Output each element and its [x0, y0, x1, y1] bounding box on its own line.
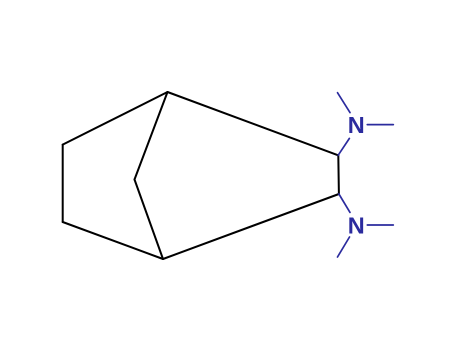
bond Bot-C2	[163, 194, 339, 259]
bond N2-methyl right	[367, 224, 393, 226]
bond N2-C2	[339, 194, 350, 212]
bond N1-methyl right	[367, 124, 393, 126]
bond M-Bot	[135, 180, 164, 260]
bond T-A	[63, 92, 168, 145]
bond T-C1	[168, 92, 339, 155]
bond N1-methyl top	[338, 93, 351, 113]
bond C1-C2	[337, 155, 340, 194]
bond N1-C1	[338, 138, 349, 155]
svg-text:N: N	[348, 213, 365, 239]
bond T-M	[135, 92, 168, 180]
svg-text:N: N	[348, 112, 365, 138]
bond B-Bot	[63, 222, 163, 259]
bond A-B	[62, 145, 64, 222]
bond N2-methyl bottom	[338, 237, 350, 257]
